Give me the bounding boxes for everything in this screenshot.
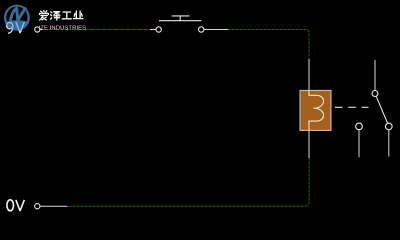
svg-text:IZE INDUSTRIES: IZE INDUSTRIES xyxy=(39,26,87,32)
